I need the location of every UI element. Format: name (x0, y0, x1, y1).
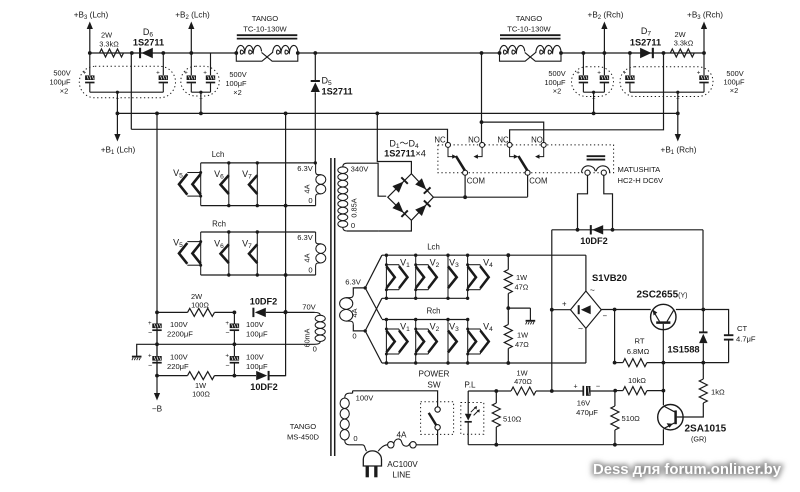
svg-text:510Ω: 510Ω (503, 415, 522, 424)
svg-text:+: + (184, 70, 188, 77)
svg-text:3.3kΩ: 3.3kΩ (674, 39, 694, 48)
wire -B mid rail with ground (132, 344, 297, 360)
capacitor group 500V 100uF x2 (B3 Lch) (49, 53, 175, 113)
svg-text:1S2711: 1S2711 (133, 37, 164, 47)
tube V6 heater (Rch) (214, 230, 230, 276)
svg-text:100V: 100V (356, 393, 375, 402)
svg-text:Rch: Rch (427, 307, 441, 316)
wire S1VB20 minus to 2SC2655 (601, 308, 650, 312)
node -B (152, 376, 163, 414)
svg-text:100Ω: 100Ω (191, 301, 209, 310)
svg-text:100V: 100V (170, 320, 189, 329)
resistor 1W 47 ohm (upper) (504, 253, 528, 308)
tube V1 heater (Lch) (385, 254, 410, 300)
resistor RT 6.8M ohm (613, 337, 729, 367)
svg-text:2SA1015: 2SA1015 (685, 424, 727, 435)
choke TANGO TC-10-130W (Lch) (234, 14, 299, 61)
svg-text:COM: COM (467, 177, 485, 186)
svg-text:NO: NO (468, 136, 480, 145)
svg-text:70V: 70V (302, 303, 316, 312)
svg-text:6.3V: 6.3V (345, 278, 362, 287)
wire 2SA1015 emitter-collector path (662, 391, 664, 445)
svg-text:+: + (225, 353, 229, 360)
Lch V1-V4 heater rails (382, 243, 586, 299)
svg-text:+: + (156, 70, 160, 77)
svg-text:0: 0 (308, 266, 312, 275)
svg-text:0: 0 (352, 332, 356, 341)
wire base divider node rail (614, 310, 616, 363)
svg-text:+: + (562, 300, 567, 309)
svg-text:+: + (597, 70, 601, 77)
tube V7 heater (Rch) (242, 230, 259, 276)
tube V4 heater (Rch) (466, 318, 493, 365)
wire B+ bus to -B network (156, 113, 158, 375)
svg-text:60mA: 60mA (303, 328, 312, 347)
svg-text:100V: 100V (246, 320, 265, 329)
wire 470 ohm node up to S1VB20 plus (551, 310, 553, 391)
node +B2 (Rch) (588, 11, 624, 55)
svg-text:500V: 500V (229, 70, 246, 79)
wire NO feed from bus (480, 51, 484, 143)
resistor 2W 3.3k ohm (Rch) (670, 30, 694, 57)
wire switch to fuse (416, 430, 437, 445)
wire heater common to B+ bus and -B rectifier (269, 113, 287, 375)
svg-text:−: − (225, 363, 229, 370)
svg-text:0: 0 (313, 345, 317, 354)
svg-text:MATUSHITA: MATUSHITA (618, 165, 662, 174)
relay coil (582, 156, 610, 175)
svg-text:P.L: P.L (464, 381, 476, 390)
svg-text:−: − (148, 330, 152, 337)
svg-text:4A: 4A (303, 253, 312, 262)
svg-text:10DF2: 10DF2 (250, 382, 278, 392)
resistor 1W 470 ohm (496, 369, 553, 396)
transistor 2SA1015(GR) (658, 405, 727, 444)
rectifier S1VB20 (562, 272, 627, 334)
diode D7 1S2711 (628, 26, 665, 58)
svg-text:+: + (148, 353, 152, 360)
diode D5 1S2711 (311, 51, 353, 164)
svg-text:510Ω: 510Ω (622, 414, 641, 423)
svg-text:340V: 340V (351, 165, 370, 174)
svg-text:NO: NO (531, 136, 543, 145)
svg-text:0: 0 (353, 434, 357, 443)
svg-text:6.3V: 6.3V (297, 164, 314, 173)
fuse 4A (388, 430, 417, 448)
svg-text:TC-10-130W: TC-10-130W (507, 25, 551, 34)
svg-text:+: + (573, 383, 577, 390)
svg-text:0: 0 (308, 196, 312, 205)
node +B3 (Lch) (74, 11, 109, 55)
wire primary top rail (353, 391, 438, 407)
svg-text:(GR): (GR) (691, 435, 707, 444)
svg-text:×2: ×2 (730, 86, 738, 95)
svg-text:470Ω: 470Ω (514, 377, 532, 386)
svg-text:Lch: Lch (427, 243, 440, 252)
capacitor 100V 2200uF (148, 312, 193, 346)
svg-text:1kΩ: 1kΩ (711, 388, 725, 397)
resistor 10k ohm (613, 376, 663, 395)
winding 340V 0.85A (338, 163, 386, 231)
wire 10DF2 row to S1VB20 plus (551, 230, 553, 310)
svg-text:×2: ×2 (553, 87, 561, 96)
capacitor 100V 220uF (148, 344, 189, 377)
svg-text:3.3kΩ: 3.3kΩ (99, 40, 119, 49)
relay MATUSHITA HC2-H DC6V dashed box (438, 145, 664, 185)
svg-text:TANGO: TANGO (290, 422, 317, 431)
capacitor group 500V 100uF x2 (B2 Rch) (544, 51, 613, 113)
wire 10DF2 row to 2SC2655 collector node (702, 230, 704, 310)
resistor 1W 47 ohm (lower) (504, 308, 529, 365)
wire 2SC2655 collector rail to CT (676, 308, 729, 335)
svg-text:×2: ×2 (60, 87, 68, 96)
resistor 1k ohm (677, 363, 725, 417)
tube V2 heater (Rch) (414, 318, 440, 365)
svg-text:−: − (225, 330, 229, 337)
diode D6 1S2711 (130, 27, 165, 58)
svg-text:2200μF: 2200μF (167, 330, 193, 339)
svg-text:+: + (576, 70, 580, 77)
svg-text:4A: 4A (350, 308, 359, 317)
pilot lamp P.L (461, 381, 484, 445)
svg-text:16V: 16V (577, 399, 591, 408)
wire D6 node to standby bus (130, 53, 132, 129)
svg-text:500V: 500V (53, 69, 70, 78)
svg-text:47Ω: 47Ω (515, 340, 529, 349)
choke TANGO TC-10-130W (Rch) (498, 14, 563, 61)
svg-text:CT: CT (737, 324, 747, 333)
tube V4 heater (Lch) (466, 254, 493, 300)
diode 10DF2 (upper -B) (233, 297, 286, 318)
diode 10DF2 (relay) (552, 225, 703, 246)
svg-text:+: + (203, 70, 207, 77)
svg-text:4A: 4A (396, 430, 407, 439)
svg-text:Dess для forum.onliner.by: Dess для forum.onliner.by (593, 462, 782, 478)
svg-text:COM: COM (529, 177, 547, 186)
svg-text:HC2-H DC6V: HC2-H DC6V (618, 176, 665, 185)
Rch V5-V7 heater rails + 6.3V winding (201, 220, 326, 276)
wire relay NO link (480, 120, 544, 143)
svg-text:1S2711: 1S2711 (630, 37, 661, 47)
svg-text:100μF: 100μF (246, 362, 268, 371)
resistor 2W 100 ohm (155, 292, 234, 316)
rectifier D1-D4 1S2711 x4 (384, 139, 433, 221)
svg-text:0.85A: 0.85A (350, 198, 359, 217)
winding 6.3V 4A (V1-V4 heaters) (340, 278, 367, 341)
svg-text:2W: 2W (101, 31, 112, 40)
wire Lch heater rail to S1VB20 AC1 (585, 255, 587, 291)
capacitor CT 4.7uF (724, 324, 756, 363)
wire top B+ bus (90, 52, 704, 54)
svg-text:1S1588: 1S1588 (667, 344, 699, 355)
svg-text:100V: 100V (246, 353, 265, 362)
junction dots on B+ bus (155, 112, 595, 116)
node +B1 (Rch) (661, 112, 697, 157)
power switch (419, 370, 454, 435)
wire COM output from rectifier D1-D4 (433, 175, 527, 199)
svg-text:MS-450D: MS-450D (287, 433, 320, 442)
svg-text:×2: ×2 (233, 88, 241, 97)
svg-text:NC: NC (497, 136, 509, 145)
svg-text:~: ~ (590, 285, 595, 295)
svg-text:100μF: 100μF (49, 78, 71, 87)
ground (heater center tap) (506, 306, 535, 324)
winding 70V 60mA (284, 303, 326, 354)
svg-text:+: + (83, 70, 87, 77)
svg-text:−: − (116, 96, 120, 102)
svg-text:10DF2: 10DF2 (580, 236, 608, 246)
svg-text:~: ~ (578, 324, 583, 334)
relay contact 2 (NC NO COM) (497, 136, 547, 186)
wire main low rail (468, 391, 663, 445)
capacitor group 500V 100uF x2 (B2 Lch) (181, 53, 247, 113)
wire heater feeds (crossed fan-out) (365, 255, 382, 363)
resistor 1W 100 ohm (157, 372, 234, 399)
winding 100V primary (340, 391, 374, 445)
wire S1VB20 plus lead (550, 308, 571, 312)
wire relay coil leads to 10DF2 row (578, 175, 613, 230)
transformer core TANGO MS-450D (287, 158, 335, 456)
tube V1 heater (Rch) (385, 318, 410, 365)
wire rectifier bottom to 340V 0 lead (378, 220, 411, 231)
wire standby bus left (to relay NC1) (131, 129, 447, 143)
wire Rch heater rail to S1VB20 AC2 (585, 328, 587, 363)
svg-text:500V: 500V (548, 69, 565, 78)
svg-text:0: 0 (351, 221, 355, 230)
svg-text:TANGO: TANGO (516, 14, 543, 23)
svg-text:NC: NC (434, 136, 446, 145)
tube V5 heater (Lch) (173, 163, 202, 206)
svg-text:1S2711: 1S2711 (322, 87, 353, 97)
svg-text:1W: 1W (517, 331, 528, 340)
svg-text:Rch: Rch (212, 220, 226, 229)
capacitor 100V 100uF (upper) (225, 312, 268, 346)
svg-text:SW: SW (427, 381, 440, 390)
capacitor 100V 100uF (lower) (225, 344, 268, 377)
svg-text:−: − (592, 96, 596, 102)
svg-text:−: − (596, 381, 600, 390)
resistor 510 ohm (divider) (611, 391, 640, 447)
svg-text:+: + (697, 70, 701, 77)
svg-text:4A: 4A (303, 184, 312, 193)
svg-text:+: + (623, 70, 627, 77)
svg-text:POWER: POWER (419, 370, 450, 379)
resistor 510 ohm (pilot) (492, 389, 521, 447)
resistor 2W 3.3k ohm (Lch) (99, 31, 123, 58)
svg-text:100μF: 100μF (225, 79, 247, 88)
svg-text:6.3V: 6.3V (297, 233, 314, 242)
svg-text:100Ω: 100Ω (192, 390, 210, 399)
svg-text:1W: 1W (516, 273, 527, 282)
tube V7 heater (Lch) (242, 161, 259, 207)
capacitor group 500V 100uF x2 (B3 Rch) (620, 53, 745, 113)
svg-text:Lch: Lch (212, 150, 225, 159)
wire rectifier top to B+ bus (377, 113, 411, 173)
svg-text:1S2711×4: 1S2711×4 (384, 149, 426, 159)
svg-text:+: + (148, 320, 152, 327)
svg-text:6.8MΩ: 6.8MΩ (627, 347, 650, 356)
node +B1 (Lch) (101, 112, 136, 157)
tube V3 heater (Lch) (446, 254, 459, 300)
tube V5 heater (Rch) (173, 232, 202, 275)
tube V3 heater (Rch) (446, 318, 459, 365)
node +B2 (Lch) (175, 11, 210, 55)
svg-text:4.7μF: 4.7μF (736, 335, 756, 344)
watermark (593, 462, 782, 478)
tube V6 heater (Lch) (214, 161, 230, 207)
svg-text:+: + (225, 320, 229, 327)
wire 2SC2655 base lead (662, 324, 666, 393)
Lch V5-V7 heater rails + 6.3V winding (201, 150, 326, 206)
svg-text:−: − (603, 312, 608, 321)
transistor 2SC2655(Y) (636, 290, 687, 330)
svg-text:100V: 100V (170, 353, 189, 362)
svg-text:−: − (199, 96, 203, 102)
svg-text:470μF: 470μF (576, 408, 598, 417)
svg-text:S1VB20: S1VB20 (592, 272, 627, 283)
diode 10DF2 (lower -B) (234, 371, 285, 392)
capacitor 16V 470uF (552, 381, 615, 417)
wire standby bus right (relay NC2 to D7 node) (510, 53, 664, 143)
svg-text:RT: RT (635, 337, 645, 346)
svg-text:47Ω: 47Ω (515, 283, 529, 292)
svg-text:−B: −B (152, 405, 163, 414)
relay contact 1 (NC NO COM) (434, 136, 485, 186)
node +B3 (Rch) (687, 11, 723, 55)
svg-text:TC-10-130W: TC-10-130W (243, 25, 287, 34)
svg-text:−: − (148, 363, 152, 370)
diode 1S1588 (667, 310, 707, 363)
svg-text:LINE: LINE (392, 471, 411, 480)
Rch V1-V4 heater rails (382, 307, 586, 364)
svg-text:220μF: 220μF (167, 362, 189, 371)
svg-text:TANGO: TANGO (252, 14, 279, 23)
AC plug (362, 445, 418, 480)
svg-text:100μF: 100μF (246, 330, 268, 339)
tube V2 heater (Lch) (414, 254, 440, 300)
svg-text:10DF2: 10DF2 (250, 297, 278, 307)
wire +B1 bus (117, 112, 677, 114)
svg-text:AC100V: AC100V (387, 460, 418, 469)
svg-text:10kΩ: 10kΩ (628, 376, 646, 385)
svg-text:−: − (676, 96, 680, 102)
